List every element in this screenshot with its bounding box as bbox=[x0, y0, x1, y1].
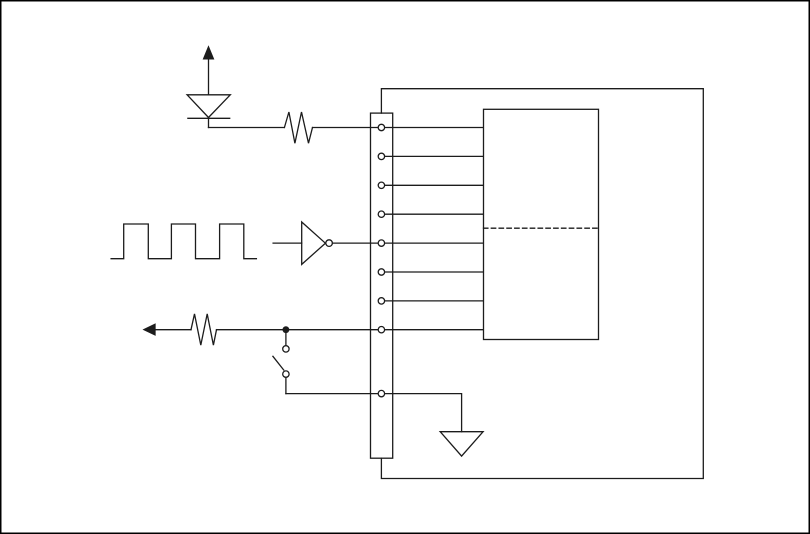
arrow output left bbox=[144, 324, 155, 335]
outer box (enclosure) bbox=[381, 89, 703, 479]
connector pin 8 bbox=[378, 327, 384, 333]
connector pin 1 bbox=[378, 124, 384, 130]
square wave source bbox=[111, 224, 256, 259]
connector pin 9 bbox=[378, 390, 384, 396]
wire pin 9 to ground bbox=[393, 394, 462, 432]
wire pin 7 to IC bbox=[385, 300, 483, 302]
connector pin 4 bbox=[378, 211, 384, 217]
wire arrow to R2 bbox=[155, 329, 191, 331]
connector pin 6 bbox=[378, 269, 384, 275]
wire pin 3 to IC bbox=[385, 184, 483, 186]
power arrow (supply) bbox=[204, 47, 214, 95]
junction node A bbox=[283, 326, 290, 333]
ground bbox=[440, 432, 483, 456]
connector pin 5 bbox=[378, 240, 384, 246]
resistor R2 bbox=[191, 314, 217, 345]
wire pin 2 to IC bbox=[385, 155, 483, 157]
connector pin 3 bbox=[378, 182, 384, 188]
wire source to inverter bbox=[273, 242, 302, 244]
connector pin 7 bbox=[378, 298, 384, 304]
wire pin 4 to IC bbox=[385, 213, 483, 215]
wire R2 through node to pin 8 and IC bbox=[217, 329, 484, 331]
wire diode to R1 bbox=[209, 127, 285, 129]
IC U2 bbox=[484, 109, 599, 339]
wire pin 6 to IC bbox=[385, 271, 483, 273]
inverter U1 bbox=[302, 222, 333, 264]
wire R1 to connector pin 1 bbox=[313, 127, 484, 129]
wire inverter output to pin 5 and IC bbox=[332, 242, 483, 244]
switch S1 bbox=[273, 330, 289, 394]
resistor R1 bbox=[284, 112, 312, 143]
connector pin 2 bbox=[378, 153, 384, 159]
IC internal divider (dashed) bbox=[484, 227, 599, 229]
connector J1 body bbox=[371, 113, 393, 458]
diode D1 bbox=[187, 95, 230, 128]
wire switch to pin 9 bbox=[286, 393, 393, 395]
